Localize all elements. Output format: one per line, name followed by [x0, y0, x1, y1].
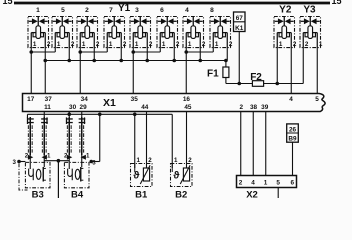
relay box 67/K1 — [234, 12, 246, 32]
wire X1-29 to B4 right cable — [81, 112, 83, 118]
wire branch to B4 pin3 — [99, 114, 101, 161]
svg-text:1: 1 — [135, 41, 139, 48]
svg-text:2: 2 — [229, 41, 233, 48]
wire Y1/5 pin leads — [133, 40, 147, 48]
svg-text:4: 4 — [251, 180, 255, 187]
wire B9 to X2-6 — [292, 142, 294, 175]
svg-text:1: 1 — [57, 41, 61, 48]
svg-text:5: 5 — [276, 180, 280, 187]
junction ground line X1-30 — [67, 113, 71, 117]
junction B4 pin3 — [89, 160, 93, 164]
temperature sensor B2 — [171, 164, 193, 187]
svg-text:45: 45 — [184, 104, 192, 111]
sensor B3 — [25, 162, 50, 187]
wire injector 3 pin1 to X1-35 — [132, 48, 134, 94]
injector valve Y1/5 (cyl 3) — [130, 17, 151, 48]
wire cyl6 pin1 drop — [159, 48, 161, 53]
svg-text:3: 3 — [135, 7, 139, 14]
wire X2-5 down — [277, 188, 279, 199]
svg-text:2: 2 — [240, 104, 244, 111]
junction pair 2+7 — [78, 50, 82, 54]
connector arrow B4 pin1 — [81, 155, 86, 160]
svg-text:B3: B3 — [32, 190, 44, 199]
wire X1-2 to X2-2 — [240, 112, 242, 176]
junction bus u4p2 — [119, 59, 123, 63]
wire Y2 pin1 to fuse line — [276, 48, 278, 84]
svg-text:3: 3 — [13, 159, 17, 166]
junction B3 pin3 — [17, 160, 21, 164]
svg-text:Y1: Y1 — [118, 3, 131, 14]
svg-text:1: 1 — [319, 41, 323, 48]
shielded cable B3 right — [41, 117, 48, 155]
wire cyl7 pin1 drop — [106, 48, 108, 53]
sensor B4 — [64, 162, 89, 187]
wire injector1 pin2 to X1-37 — [44, 48, 46, 94]
pin labels Y1/1 — [33, 41, 51, 48]
fuse F1 — [223, 67, 229, 78]
wire bus to F1 to fuse line — [225, 61, 227, 84]
connector X2 — [237, 176, 297, 188]
svg-text:15: 15 — [3, 0, 13, 6]
wire injector7 pin2 drop — [199, 48, 201, 61]
wire Y1/2 pin leads — [55, 40, 69, 48]
temperature sensor B1 — [131, 164, 153, 187]
svg-text:4: 4 — [185, 7, 189, 14]
svg-text:2: 2 — [148, 157, 152, 164]
wire injector 1 pin1 to X1-17 — [30, 48, 32, 94]
svg-text:X1: X1 — [103, 97, 116, 109]
svg-text:1: 1 — [86, 152, 90, 159]
shielded cable B4 left — [66, 117, 73, 155]
junction shield ground — [57, 159, 61, 163]
injector valve Y1/7 (cyl 4) — [183, 17, 204, 48]
injector valve Y2 (cyl -) — [274, 17, 295, 48]
svg-text:30: 30 — [69, 104, 77, 111]
pin labels Y1/8 — [215, 41, 233, 48]
wire sensor shield tie — [44, 160, 69, 162]
pin labels B2 — [174, 157, 192, 164]
svg-text:34: 34 — [81, 96, 89, 103]
box 26/B9 — [287, 124, 299, 142]
wire B4 right into box — [81, 155, 83, 162]
injector valve Y1/6 (cyl 6) — [157, 17, 178, 48]
svg-text:5: 5 — [61, 7, 65, 14]
injector valve Y3 (cyl -) — [300, 17, 321, 48]
wire pair link cyl 3+6 — [133, 51, 160, 53]
svg-text:6: 6 — [291, 180, 295, 187]
svg-text:ϑ: ϑ — [173, 169, 180, 181]
svg-text:B2: B2 — [175, 190, 187, 199]
svg-text:67: 67 — [236, 15, 244, 22]
shielded cable B4 right — [79, 117, 86, 155]
wire shield to ground — [57, 161, 59, 198]
svg-text:3: 3 — [92, 160, 96, 167]
junction bus to F1 — [224, 59, 228, 63]
svg-text:1: 1 — [33, 41, 37, 48]
svg-text:1: 1 — [188, 41, 192, 48]
svg-text:B1: B1 — [135, 190, 148, 199]
connector arrow B4 pin2 — [67, 155, 72, 160]
wire X1-38 to X2-4 — [252, 112, 254, 176]
svg-text:ϑ: ϑ — [133, 169, 140, 181]
connector strip X1 — [23, 94, 326, 112]
junction pair 1+5 — [29, 50, 33, 54]
svg-text:11: 11 — [44, 104, 51, 111]
wire Y3 pin2 to fuse line — [302, 48, 304, 84]
wire bus terminal 15 — [14, 2, 330, 5]
junction bus u1p2 — [43, 59, 47, 63]
wire corner to B3 left cable — [26, 114, 28, 118]
svg-text:2: 2 — [188, 157, 192, 164]
svg-text:2: 2 — [176, 41, 180, 48]
svg-text:2: 2 — [25, 152, 29, 159]
svg-text:1: 1 — [136, 157, 140, 164]
wire X1-11 to B3 right cable — [43, 112, 45, 118]
wire Y1/8 pin leads — [213, 40, 227, 48]
svg-text:2: 2 — [149, 41, 153, 48]
pin labels Y2 — [279, 41, 297, 48]
pin labels B1 — [136, 157, 152, 164]
wire Y3 pin1 to X1-5 — [316, 48, 318, 94]
svg-text:17: 17 — [27, 96, 35, 103]
junction Y2 pin1 — [275, 82, 279, 86]
svg-text:1: 1 — [215, 41, 219, 48]
svg-text:X2: X2 — [246, 190, 258, 199]
svg-text:1: 1 — [279, 41, 283, 48]
wire pair link cyl 4+8 — [186, 51, 213, 53]
wire Y3 pin leads — [303, 40, 317, 48]
wire Y1/3 pin leads — [80, 40, 94, 48]
wire injector3 pin2 drop — [93, 48, 95, 61]
svg-text:15: 15 — [332, 0, 342, 6]
wire Y2 pin2 to X1-4 — [290, 48, 292, 94]
pin labels Y1/7 — [188, 41, 206, 48]
svg-text:4: 4 — [289, 96, 293, 103]
box divider 26/B9 — [287, 132, 299, 134]
svg-text:Y2: Y2 — [279, 5, 292, 16]
pin labels Y1/5 — [135, 41, 153, 48]
svg-text:2: 2 — [71, 41, 75, 48]
svg-text:6: 6 — [160, 7, 164, 14]
wire injector2 pin2 drop — [68, 48, 70, 61]
wire injector8 pin2 drop — [226, 48, 228, 61]
svg-text:1: 1 — [82, 41, 86, 48]
svg-text:37: 37 — [45, 96, 53, 103]
wire stub B4 pin3 — [90, 161, 100, 163]
svg-text:1: 1 — [174, 157, 178, 164]
injector valve Y1/2 (cyl 5) — [52, 17, 73, 48]
wire pair link cyl 2+7 — [80, 51, 107, 53]
wire ground line to B1 pin1 — [134, 114, 136, 168]
svg-text:8: 8 — [210, 7, 214, 14]
svg-text:2: 2 — [85, 7, 89, 14]
wire injector 2 pin1 to X1-34 — [79, 48, 81, 94]
wire Y2 pin leads — [277, 40, 291, 48]
wire Y1/1 pin leads — [31, 40, 45, 48]
svg-text:2: 2 — [123, 41, 127, 48]
junction bus u5p2 — [145, 59, 149, 63]
wire injector6 pin2 drop — [173, 48, 175, 61]
svg-text:35: 35 — [131, 96, 139, 103]
svg-text:2: 2 — [293, 41, 297, 48]
pin labels Y3 — [305, 41, 323, 48]
wire X1-44 to B1 pin2 — [146, 112, 148, 169]
wire B4 left into box — [68, 155, 70, 162]
shielded cable B3 left — [27, 117, 34, 155]
junction pair 3+6 — [131, 50, 135, 54]
pin labels Y1/3 — [82, 41, 100, 48]
svg-text:1: 1 — [36, 7, 40, 14]
svg-text:2: 2 — [47, 41, 51, 48]
connector arrow B3 pin1 — [42, 155, 47, 160]
wire F1/F2 output line — [226, 83, 303, 85]
wire cyl5 pin1 drop — [54, 48, 56, 53]
wire injector supply bus — [45, 60, 226, 62]
wire Y1/6 pin leads — [160, 40, 174, 48]
junction ground line B4 pin3 branch — [98, 113, 102, 117]
svg-text:2: 2 — [305, 41, 309, 48]
junction pair 4+8 — [184, 50, 188, 54]
svg-text:16: 16 — [183, 96, 191, 103]
injector valve Y1/8 (cyl 8) — [210, 17, 231, 48]
svg-text:1: 1 — [47, 152, 51, 159]
junction bus u3p2 — [92, 59, 96, 63]
wire B3 pin3 stub — [19, 161, 25, 163]
svg-text:2: 2 — [202, 41, 206, 48]
pin labels Y1/4 — [109, 41, 127, 48]
wire sensor ground line — [27, 113, 172, 115]
injector valve Y1/3 (cyl 2) — [77, 17, 98, 48]
junction bus u2p2 — [67, 59, 71, 63]
svg-text:B9: B9 — [288, 136, 297, 143]
svg-text:B4: B4 — [71, 190, 84, 199]
wire injector 4 pin1 to X1-16 — [185, 48, 187, 94]
fuse F2 — [252, 81, 263, 87]
junction bus u7p2 — [198, 59, 202, 63]
svg-text:K1: K1 — [235, 25, 244, 32]
wire injector5 pin2 drop — [146, 48, 148, 61]
wire ground line corner to B2 pin1 — [171, 114, 173, 168]
svg-text:Y3: Y3 — [303, 5, 316, 16]
svg-text:F1: F1 — [207, 68, 219, 79]
wire X1-45 to B2 pin2 — [186, 112, 188, 169]
svg-text:39: 39 — [261, 104, 269, 111]
svg-text:1: 1 — [264, 180, 268, 187]
pin labels Y1/6 — [162, 41, 180, 48]
svg-text:26: 26 — [289, 126, 297, 133]
wire X1-39 to X2-1 — [265, 112, 267, 176]
pin labels Y1/2 — [57, 41, 75, 48]
svg-text:7: 7 — [109, 7, 113, 14]
svg-text:44: 44 — [141, 104, 149, 111]
wire Y1/4 pin leads — [107, 40, 121, 48]
svg-text:2: 2 — [96, 41, 100, 48]
svg-text:38: 38 — [250, 104, 258, 111]
wire injector4 pin2 drop — [120, 48, 122, 61]
svg-text:1: 1 — [162, 41, 166, 48]
relay box divider — [234, 21, 246, 23]
wire X1-30 to B4 left cable — [68, 112, 70, 118]
svg-text:2: 2 — [239, 180, 243, 187]
svg-text:1: 1 — [109, 41, 113, 48]
junction K1 on fuse line — [237, 82, 241, 86]
connector arrow B3 pin2 — [28, 155, 33, 160]
injector valve Y1/1 (cyl 1) — [28, 17, 49, 48]
wire K1 to fuse line — [238, 32, 240, 84]
wire Y1/7 pin leads — [186, 40, 200, 48]
junction ground line B1 pin1 — [133, 113, 137, 117]
wire cyl8 pin1 drop — [212, 48, 214, 53]
injector valve Y1/4 (cyl 7) — [104, 17, 125, 48]
wire B3 right into box — [43, 155, 45, 162]
svg-text:5: 5 — [315, 96, 319, 103]
svg-text:29: 29 — [80, 104, 88, 111]
wire pair link cyl 1+5 — [31, 51, 55, 53]
svg-text:2: 2 — [64, 152, 68, 159]
junction bus u6p2 — [172, 59, 176, 63]
shield trace B3 pin3 — [19, 164, 28, 191]
wire B3 left into box — [29, 155, 31, 162]
